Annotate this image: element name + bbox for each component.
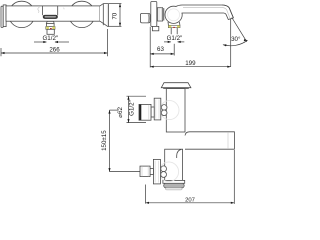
svg-text:G1/2″: G1/2″ xyxy=(42,35,58,42)
svg-text:150±15: 150±15 xyxy=(101,130,108,151)
svg-text:30°: 30° xyxy=(231,36,241,43)
svg-text:⌀62: ⌀62 xyxy=(117,107,124,118)
svg-text:207: 207 xyxy=(185,197,195,203)
svg-text:70: 70 xyxy=(111,12,118,19)
svg-text:G1/2″: G1/2″ xyxy=(129,99,136,115)
svg-text:199: 199 xyxy=(185,60,196,67)
svg-text:266: 266 xyxy=(49,47,60,54)
svg-text:63: 63 xyxy=(157,46,164,53)
